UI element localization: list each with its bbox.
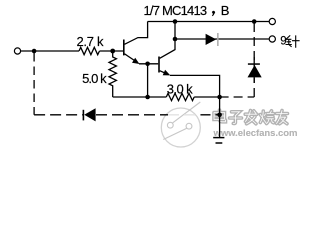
label 1/7 MC1413 , B <box>144 3 230 18</box>
clamp diode solid segment <box>253 57 255 83</box>
wire Q2 base node down <box>147 64 149 97</box>
wire node D to ground <box>219 97 221 137</box>
diode D2 body (line2) <box>206 33 219 46</box>
top rail <box>148 21 270 23</box>
resistor R1 2.7k <box>79 47 100 54</box>
transistor Q1 collector <box>125 22 148 45</box>
watermark text white core layer <box>214 110 288 124</box>
svg-text:B: B <box>221 3 230 18</box>
diode D3 body (clamp, vertical) <box>248 63 262 77</box>
resistor R3 3.0k <box>166 93 194 100</box>
wire R1 to Q1 base <box>100 50 124 52</box>
Q1 emitter arrowhead <box>132 58 140 64</box>
junction R2/R3 node <box>145 95 150 100</box>
bottom wire to 3.0k <box>113 96 167 98</box>
dashed rail faint under logo <box>168 114 201 116</box>
dashed bottom rail center <box>96 114 168 116</box>
svg-text:5.0 k: 5.0 k <box>82 71 107 86</box>
junction Q2 emitter node <box>217 95 222 100</box>
fullwidth comma <box>212 11 215 16</box>
svg-text:1/7 MC1413: 1/7 MC1413 <box>144 3 207 18</box>
ground <box>213 138 224 143</box>
transistor Q2 emitter <box>160 71 166 74</box>
dashed wire D right to clamp diode <box>220 96 255 98</box>
transistor Q2 collector <box>160 22 175 59</box>
output terminal 9pin <box>269 36 275 42</box>
junction Q1 base node <box>110 49 115 54</box>
output terminal top <box>269 18 275 24</box>
dashed riser to top rail <box>253 22 255 61</box>
svg-text:2.7 k: 2.7 k <box>77 34 104 49</box>
wire line2 from node to terminal <box>175 38 269 40</box>
dashed wire input down <box>33 53 35 115</box>
junction ground rail node <box>217 113 222 118</box>
transistor Q2 base bar <box>158 57 160 73</box>
transistor Q1 emitter <box>125 54 137 62</box>
watermark logo disc <box>161 108 200 147</box>
junction Q2 base node <box>145 62 150 67</box>
wire R3 to node D <box>194 96 219 98</box>
svg-text:9: 9 <box>280 35 286 47</box>
Q2 emitter arrowhead <box>163 70 171 76</box>
junction top rail / Q2 collector <box>173 19 178 24</box>
glyph 针 <box>286 35 300 47</box>
diode D1 body (left) <box>83 108 96 121</box>
watermark text outline layer <box>214 110 288 124</box>
wire Q1 emitter to Q2 base <box>139 63 158 65</box>
dashed rail to ground node <box>201 114 220 116</box>
dashed clamp diode riser <box>253 78 255 97</box>
wire Q2 emitter run <box>170 75 220 97</box>
watermark logo plug icon <box>163 102 200 140</box>
junction output line node <box>173 37 178 42</box>
resistor R2 5.0k vertical <box>109 53 116 97</box>
wire input to Q1 base <box>21 50 79 52</box>
dashed bottom rail left <box>34 114 83 116</box>
svg-text:www.elecfans.com: www.elecfans.com <box>213 128 298 139</box>
transistor Q1 base bar <box>123 40 125 56</box>
svg-text:3.0 k: 3.0 k <box>167 82 193 97</box>
junction at input branch <box>32 49 37 54</box>
junction top rail / clamp branch <box>252 19 257 24</box>
input terminal <box>14 48 20 54</box>
